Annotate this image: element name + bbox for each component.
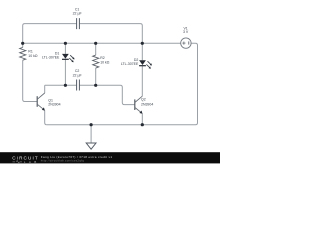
wire R1 top lead: [22, 43, 24, 47]
wire middle: C2 right plate to corner, down and to Q2 base: [79, 85, 134, 104]
transistor Q1: [37, 93, 45, 111]
logo CircuitLab: [12, 155, 39, 164]
wire D1 cathode to middle node: [64, 60, 66, 86]
node rail-D1: [64, 42, 67, 45]
D1 emission arrow 2: [69, 58, 72, 61]
D2 emission arrow 1: [148, 61, 151, 64]
svg-text:R2: R2: [100, 56, 105, 60]
svg-text:LTL-307EE: LTL-307EE: [42, 56, 60, 60]
wire R2 top lead: [95, 43, 97, 55]
svg-text:2N3904: 2N3904: [48, 102, 60, 106]
transistor Q2: [135, 96, 143, 114]
wire C1 right plate to junction, down to rail: [79, 24, 142, 44]
wire R2 bottom lead: [95, 68, 97, 85]
node rail-R1/C1: [21, 42, 24, 45]
wire top rail: [23, 42, 181, 44]
svg-text:C2: C2: [75, 69, 80, 73]
V1 plus sign: [182, 42, 185, 45]
Q2 base bar: [134, 99, 136, 110]
wire D2 cathode to Q2 collector: [141, 66, 143, 96]
wire D2 anode lead: [141, 43, 143, 60]
resistor R1: [20, 47, 26, 60]
svg-text:http://circuitlab.com/czs2qfq: http://circuitlab.com/czs2qfq: [41, 159, 84, 163]
labels: [28, 7, 189, 106]
LED D1: [62, 54, 75, 62]
wire D1 anode lead: [64, 43, 66, 54]
D1 triangle: [62, 54, 69, 59]
node mid-R2: [94, 84, 97, 87]
watermark bar: [0, 152, 220, 163]
svg-text:10 kΩ: 10 kΩ: [100, 60, 110, 64]
svg-text:D1: D1: [55, 51, 60, 55]
ground: [86, 143, 96, 149]
svg-text:10 kΩ: 10 kΩ: [28, 54, 38, 58]
wire V1 right to right rail down to bottom rail: [47, 43, 198, 124]
resistor R2: [93, 55, 99, 68]
node Q2 emitter: [141, 123, 144, 126]
svg-text:22 µF: 22 µF: [73, 12, 82, 16]
credit text: [41, 155, 113, 163]
voltage source V1 circle: [181, 38, 191, 48]
junction dots: [21, 42, 144, 127]
D1 emission arrow 1: [70, 55, 73, 58]
wire ground stub: [90, 125, 92, 143]
Q2 emitter diagonal: [135, 107, 141, 112]
Q1 base bar: [36, 96, 38, 107]
D2 emission arrow 2: [146, 64, 149, 67]
svg-text:3 V: 3 V: [183, 30, 189, 34]
capacitor C2 plates: [77, 80, 80, 91]
node gnd: [90, 123, 93, 126]
node mid-D1: [64, 84, 67, 87]
V1 minus sign (rotated): [188, 41, 190, 44]
wire R1 bottom lead down to Q1 base: [23, 60, 38, 101]
svg-text:LAB: LAB: [24, 160, 40, 164]
capacitor C1 plates: [77, 18, 80, 29]
Q1 collector diagonal: [37, 93, 45, 99]
wire middle: Q1 collector to C2 left plate: [45, 85, 77, 93]
node rail-R2: [94, 42, 97, 45]
Q2 collector diagonal: [135, 96, 143, 102]
svg-text:LTL-307EE: LTL-307EE: [121, 62, 139, 66]
svg-text:2N3904: 2N3904: [141, 102, 153, 106]
wire bottom rail end at Q1 emitter: [45, 110, 47, 124]
D2 triangle: [139, 60, 146, 65]
svg-text:22 µF: 22 µF: [73, 74, 82, 78]
wire C1 branch left vertical + top horizontal to C1 left plate: [23, 24, 77, 44]
Q1 emitter diagonal: [37, 104, 43, 109]
LED D2: [139, 60, 152, 68]
wire Q2 emitter lead: [141, 114, 143, 125]
Q2 emitter arrowhead: [139, 111, 142, 114]
D2 cathode bar: [139, 65, 146, 67]
node rail-C1-D2: [141, 42, 144, 45]
svg-text:R1: R1: [28, 49, 33, 53]
Q1 emitter arrowhead: [42, 107, 45, 110]
svg-text:Q2: Q2: [141, 98, 146, 102]
D1 cathode bar: [62, 58, 69, 60]
